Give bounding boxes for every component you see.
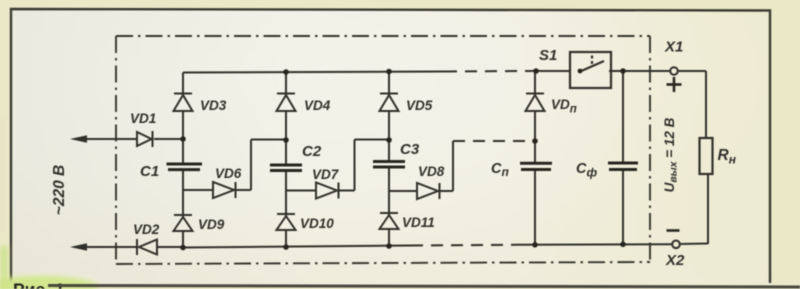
svg-text:VD3: VD3 [200,98,227,113]
svg-text:C3: C3 [400,141,420,158]
svg-text:X2: X2 [665,252,685,269]
svg-text:S1: S1 [539,47,557,64]
svg-text:X1: X1 [664,39,683,56]
svg-text:VD4: VD4 [304,98,331,113]
svg-text:C1: C1 [140,163,159,180]
svg-text:VD8: VD8 [418,164,445,179]
svg-text:VD10: VD10 [300,216,334,231]
svg-text:VD5: VD5 [406,98,433,113]
svg-text:VD1: VD1 [130,111,156,126]
svg-text:~220 В: ~220 В [51,165,68,215]
svg-text:VD9: VD9 [198,217,225,232]
svg-text:VD2: VD2 [133,222,160,237]
svg-text:VD7: VD7 [312,167,340,182]
svg-text:VD11: VD11 [402,215,435,230]
svg-text:C2: C2 [302,143,322,160]
svg-text:VD6: VD6 [215,166,242,181]
